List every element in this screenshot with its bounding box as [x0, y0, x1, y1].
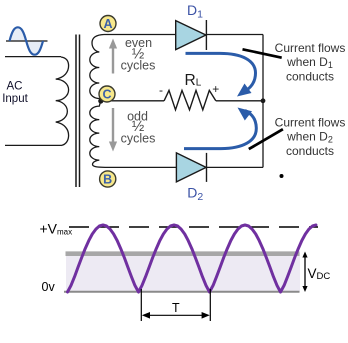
svg-text:D1: D1 — [187, 2, 203, 20]
svg-text:+: + — [212, 82, 219, 96]
svg-text:conducts: conducts — [286, 144, 334, 158]
svg-text:when D2: when D2 — [286, 130, 333, 145]
svg-text:conducts: conducts — [286, 70, 334, 84]
svg-text:RL: RL — [185, 72, 202, 89]
svg-text:Input: Input — [2, 93, 28, 105]
svg-text:A: A — [103, 17, 112, 31]
svg-text:cycles: cycles — [121, 132, 156, 146]
svg-text:B: B — [103, 173, 112, 187]
svg-text:when D1: when D1 — [286, 55, 333, 70]
svg-text:0v: 0v — [42, 280, 56, 294]
svg-text:VDC: VDC — [308, 266, 331, 282]
svg-text:Current flows: Current flows — [275, 41, 346, 55]
svg-text:cycles: cycles — [121, 59, 156, 73]
svg-text:AC: AC — [7, 80, 23, 92]
svg-text:D2: D2 — [187, 185, 203, 203]
svg-text:Current flows: Current flows — [275, 116, 346, 130]
svg-text:-: - — [159, 83, 163, 97]
svg-text:+Vmax: +Vmax — [40, 221, 73, 237]
svg-text:C: C — [102, 88, 111, 102]
svg-text:T: T — [172, 301, 180, 315]
